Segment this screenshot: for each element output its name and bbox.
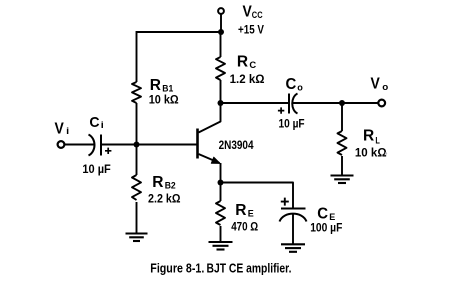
ground RL [331,176,354,184]
svg-text:R: R [237,53,249,70]
wire collector node to Co [221,102,290,104]
svg-text:1.2 kΩ: 1.2 kΩ [230,74,265,86]
svg-text:C: C [249,60,256,71]
faint dot artifact [385,152,387,154]
ground RE [209,242,233,250]
wire output node to RL [341,103,343,131]
wire RL to ground [341,156,343,176]
caption Figure 8-1 [150,262,291,276]
wire Rb1 top [136,31,138,82]
label Co [286,76,304,93]
svg-text:V: V [55,121,65,138]
svg-text:C: C [89,114,99,131]
svg-text:R: R [363,128,375,145]
svg-text:o: o [297,82,303,93]
wire Rc to collector node [220,80,222,103]
svg-text:R: R [150,77,162,94]
wire base node to Rb2 [136,145,138,176]
wire emitter node to CE [221,183,294,209]
Vo output terminal [378,100,385,107]
label + of Co [278,107,284,113]
svg-text:B1: B1 [162,84,174,95]
resistor RL [338,131,347,155]
svg-text:i: i [66,126,69,137]
transistor Q1 2N3904 [198,103,221,183]
capacitor CE [280,209,307,222]
svg-text:V: V [243,3,253,20]
svg-text:2.2 kΩ: 2.2 kΩ [148,194,181,206]
svg-text:2N3904: 2N3904 [219,140,254,152]
svg-text:10 µF: 10 µF [82,164,110,176]
wire Vcc junction to Rc [220,32,222,57]
label + of CE [281,198,289,206]
svg-text:E: E [329,212,335,223]
Vcc terminal [218,8,224,14]
node emitter junction [218,180,224,186]
label RC [237,53,256,71]
node output junction [339,100,345,106]
svg-text:C: C [286,76,297,93]
svg-text:V: V [371,76,381,93]
svg-text:BJT CE amplifier.: BJT CE amplifier. [207,262,292,276]
resistor RB2 [132,175,141,200]
wire Ci to base [101,144,198,146]
wire top rail [137,31,222,33]
ground RB2 [126,234,148,242]
wire Vi to Ci [65,144,94,146]
capacitor Co [289,94,298,114]
label RL [363,128,380,147]
wire RE to ground [220,226,222,242]
capacitor Ci [89,135,102,156]
wire emitter node to RE [220,183,222,202]
svg-text:R: R [152,174,164,191]
svg-text:i: i [101,120,104,131]
resistor RE [216,201,225,225]
label RB1 [150,77,174,95]
label CE [317,205,335,223]
svg-text:R: R [235,202,247,219]
svg-text:Figure 8-1.: Figure 8-1. [150,262,204,276]
svg-text:100 µF: 100 µF [310,222,342,234]
label RE [235,202,254,220]
wire Co to output node [293,102,379,104]
Vi input terminal [58,141,65,148]
label + of Ci [105,148,111,154]
node base divider junction [134,142,140,148]
label Vo [371,76,389,93]
wire Rb2 bottom to ground [136,202,138,234]
label Vi [55,121,70,138]
svg-text:L: L [375,136,380,147]
wire Rb1 bottom to base node [136,103,138,145]
svg-text:o: o [382,82,388,93]
label RB2 [152,174,176,192]
wire CE to ground [292,213,294,244]
label Ci [89,114,103,131]
svg-text:10 µF: 10 µF [279,118,305,130]
svg-text:+15 V: +15 V [238,24,264,36]
resistor RC [216,57,225,80]
svg-text:10 kΩ: 10 kΩ [355,147,387,159]
svg-text:E: E [248,209,254,220]
label Vcc [243,3,263,21]
node collector junction [218,100,224,106]
svg-text:B2: B2 [165,181,176,192]
node Vcc junction [218,29,224,35]
wire Vcc terminal to top rail [220,14,222,32]
svg-text:470 Ω: 470 Ω [231,222,258,234]
svg-text:10 kΩ: 10 kΩ [149,95,179,107]
resistor RB1 [132,82,141,103]
svg-text:CC: CC [252,10,263,21]
ground CE [281,244,305,252]
svg-text:C: C [317,205,328,222]
